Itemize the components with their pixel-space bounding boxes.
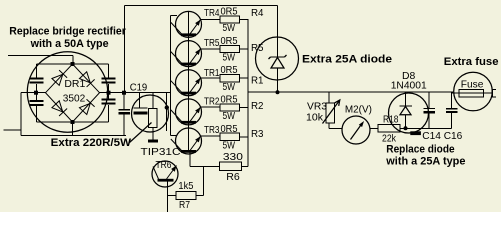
svg-text:with a 25A type: with a 25A type [385, 156, 465, 168]
svg-text:5W: 5W [223, 52, 236, 64]
svg-text:C19: C19 [130, 82, 148, 94]
svg-text:M2(V): M2(V) [345, 104, 372, 116]
svg-text:5W: 5W [223, 110, 236, 122]
svg-text:3502: 3502 [63, 93, 86, 105]
svg-text:5W: 5W [223, 81, 236, 93]
svg-text:5W: 5W [223, 139, 236, 151]
svg-text:Extra 220R/5W: Extra 220R/5W [51, 137, 132, 149]
svg-text:C14 C16: C14 C16 [422, 130, 462, 142]
svg-text:5W: 5W [223, 22, 236, 34]
svg-text:1k5: 1k5 [178, 180, 193, 192]
svg-text:TR4: TR4 [204, 7, 220, 19]
svg-text:0R5: 0R5 [221, 64, 238, 76]
svg-text:330: 330 [223, 151, 243, 163]
svg-text:DR1: DR1 [64, 78, 85, 90]
svg-text:R3: R3 [251, 128, 264, 140]
svg-text:TR5: TR5 [204, 37, 220, 49]
svg-text:Replace diode: Replace diode [386, 144, 454, 156]
svg-text:Extra fuse: Extra fuse [444, 56, 499, 68]
svg-text:0R5: 0R5 [221, 123, 238, 135]
svg-text:TR1: TR1 [204, 67, 220, 79]
svg-text:R4: R4 [251, 7, 264, 19]
svg-text:0R5: 0R5 [221, 6, 238, 18]
svg-text:R6: R6 [226, 171, 240, 183]
svg-text:R7: R7 [179, 199, 190, 211]
svg-text:0R5: 0R5 [221, 94, 238, 106]
svg-text:Fuse: Fuse [461, 79, 484, 91]
svg-text:with a 50A type: with a 50A type [30, 38, 109, 50]
svg-text:R2: R2 [251, 100, 264, 112]
svg-text:10k: 10k [306, 111, 324, 123]
svg-text:Replace bridge rectifier: Replace bridge rectifier [9, 25, 126, 37]
svg-text:R18: R18 [383, 114, 399, 126]
svg-text:R1: R1 [251, 75, 264, 87]
svg-text:Extra 25A diode: Extra 25A diode [302, 54, 392, 66]
svg-text:TR2: TR2 [204, 96, 220, 108]
svg-text:TIP31C: TIP31C [141, 146, 181, 158]
svg-text:R5: R5 [251, 42, 264, 54]
svg-text:TR6: TR6 [156, 159, 172, 171]
svg-text:TR3: TR3 [204, 124, 220, 136]
svg-text:1N4001: 1N4001 [391, 79, 427, 91]
svg-text:0R5: 0R5 [221, 35, 238, 47]
